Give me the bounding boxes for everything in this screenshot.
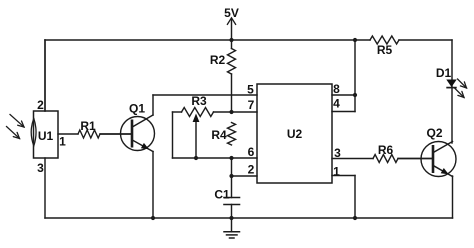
svg-text:7: 7 xyxy=(248,98,255,112)
svg-text:R5: R5 xyxy=(377,43,393,57)
svg-text:R6: R6 xyxy=(378,143,394,157)
svg-text:2: 2 xyxy=(37,98,44,112)
svg-text:R3: R3 xyxy=(191,94,207,108)
svg-text:D1: D1 xyxy=(436,66,452,80)
svg-text:5: 5 xyxy=(247,82,254,96)
svg-text:R1: R1 xyxy=(80,119,96,133)
svg-text:2: 2 xyxy=(248,162,255,176)
svg-text:U1: U1 xyxy=(38,129,54,143)
svg-text:1: 1 xyxy=(59,134,66,148)
svg-text:3: 3 xyxy=(334,146,341,160)
svg-text:Q2: Q2 xyxy=(426,126,442,140)
svg-text:5V: 5V xyxy=(224,6,239,20)
svg-text:R2: R2 xyxy=(210,53,226,67)
svg-text:3: 3 xyxy=(37,161,44,175)
svg-text:4: 4 xyxy=(333,96,340,110)
svg-text:U2: U2 xyxy=(287,127,303,141)
svg-text:C1: C1 xyxy=(214,187,230,201)
svg-text:8: 8 xyxy=(333,82,340,96)
svg-text:R4: R4 xyxy=(211,128,227,142)
svg-text:1: 1 xyxy=(333,164,340,178)
svg-text:Q1: Q1 xyxy=(129,101,145,115)
svg-text:6: 6 xyxy=(248,145,255,159)
